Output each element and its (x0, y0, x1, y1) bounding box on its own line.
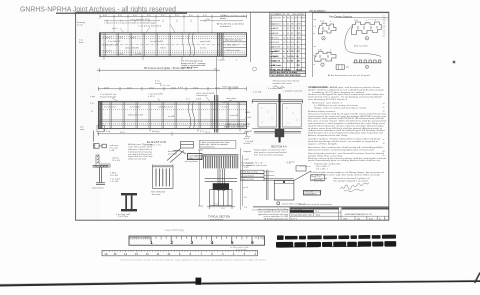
handwritten mark near table (273, 86, 285, 88)
ruler1 digits (150, 240, 254, 245)
svg-text:AB not to be used for construc: AB not to be used for construction (299, 203, 333, 206)
small box bottom-left of elevation (97, 126, 105, 132)
horn / bearing wedge assembly (167, 142, 194, 163)
svg-text:4: 4 (211, 240, 214, 245)
svg-text:A.B. "turn line": A.B. "turn line" (354, 45, 368, 48)
svg-text:45: 45 (383, 143, 385, 145)
plan under-beam ticks (104, 56, 223, 59)
hole plate A (318, 23, 336, 34)
svg-text:30.6: 30.6 (291, 56, 295, 58)
left margin annotation 2 (79, 40, 85, 44)
svg-text:41: 41 (379, 218, 381, 220)
svg-text:2: 2 (283, 56, 284, 58)
plan interior annotations (103, 36, 212, 56)
plan bottom flange edge (100, 54, 247, 56)
svg-text:crimped typ: crimped typ (196, 94, 208, 97)
svg-text:32: 32 (287, 28, 289, 30)
section A-A top annotations (253, 88, 303, 93)
svg-text:4: 4 (283, 47, 284, 49)
svg-text:340: 340 (297, 59, 300, 62)
svg-text:no: no (383, 103, 385, 105)
svg-text:15.3: 15.3 (291, 51, 295, 53)
weight table data rows (270, 24, 301, 49)
svg-text:4: 4 (366, 20, 367, 22)
svg-text:+ 1 crown: + 1 crown (285, 160, 295, 163)
svg-text:310: 310 (297, 65, 300, 67)
typical section: right dim lines (241, 148, 243, 210)
elevation wavy break (188, 101, 195, 128)
svg-text:51'-6 c to c: 51'-6 c to c (160, 84, 172, 87)
svg-text:x 3 x 3/8: x 3 x 3/8 (110, 181, 119, 183)
svg-text:10'-6: 10'-6 (149, 87, 155, 89)
svg-text:85: 85 (291, 60, 293, 62)
svg-text:52'-6 out to out of girder - 5: 52'-6 out to out of girder - 50 ton cap … (144, 67, 193, 70)
plan top flange edge (100, 33, 247, 35)
general notes paragraph 5 (308, 146, 383, 151)
section divider line (250, 12, 252, 62)
svg-text:17.9: 17.9 (291, 28, 295, 30)
section A-A center web dark bar (279, 94, 281, 143)
title block bottom numbers (291, 217, 386, 220)
section A-A top flange (252, 100, 302, 104)
elevation dim labels (104, 84, 239, 90)
small plate with ticks (336, 65, 344, 70)
svg-text:New Design Spacing: New Design Spacing (329, 16, 353, 19)
svg-text:3.9: 3.9 (287, 42, 290, 44)
typical section: dark block (213, 183, 229, 190)
typical section: base ticks (207, 206, 235, 209)
svg-text:1/2 = 3/8 - 1: 1/2 = 3/8 - 1 (316, 168, 329, 170)
ruler1 major ticks (151, 236, 252, 241)
svg-text:88: 88 (383, 151, 385, 153)
general notes paragraph 3 (308, 110, 387, 137)
svg-text:deck: deck (316, 214, 320, 216)
bottom edge dark line left (0, 282, 196, 285)
svg-text:shop coat red lead: shop coat red lead (128, 158, 147, 161)
title block center texts (291, 211, 320, 217)
typical section: deck lines (203, 153, 239, 155)
svg-text:14x3/8: 14x3/8 (273, 28, 279, 30)
svg-text:4.0: 4.0 (287, 47, 290, 49)
bottom right corner curl (475, 273, 480, 283)
ruler1 fine ticks left section (130, 236, 150, 239)
svg-text:re: re (383, 139, 385, 141)
end detail circle marker (277, 202, 280, 205)
plan view beam outline (100, 33, 102, 57)
elevation left end post (99, 101, 102, 128)
typical section: tie hatch band (204, 156, 238, 168)
plan right splice verticals (218, 33, 224, 57)
svg-text:251: 251 (297, 51, 300, 53)
typical section: label (208, 215, 230, 218)
svg-text:20x1-1/4: 20x1-1/4 (273, 59, 281, 62)
svg-text:pin detail: pin detail (168, 152, 177, 155)
hole plate micro labels (318, 20, 376, 52)
svg-text:86: 86 (297, 56, 299, 58)
general notes paragraph 4 (308, 138, 381, 146)
typical section: lower box (210, 190, 233, 206)
svg-text:field notes: field notes (314, 180, 325, 183)
end detail right step (294, 166, 311, 181)
svg-text:pl 12x3/8: pl 12x3/8 (273, 47, 281, 49)
right sidebar marks (383, 16, 386, 158)
hole plate B letter (365, 37, 368, 40)
svg-text:12 x 3/4: 12 x 3/4 (112, 160, 121, 162)
section A-A left margin labels (245, 112, 254, 143)
elevation web annotations (128, 114, 238, 118)
svg-text:ESTIMATED WT LIST - ONE GIRDER: ESTIMATED WT LIST - ONE GIRDER (271, 13, 304, 16)
svg-text:HARD STEEL: HARD STEEL (189, 157, 204, 160)
svg-text:all ribbed bars true with the: all ribbed bars true with the ends of th… (310, 173, 381, 176)
svg-text:11258: 11258 (296, 69, 302, 71)
svg-text:2-3/4: 2-3/4 (318, 49, 322, 51)
small symbol between views (253, 67, 257, 71)
svg-text:pl 9x1/2: pl 9x1/2 (273, 51, 280, 53)
plan break wavy lines (188, 33, 195, 57)
dim extension lines to beam (114, 18, 212, 33)
notes two-column fragment (314, 177, 370, 182)
table footnote (273, 79, 301, 84)
svg-text:pin brg detail: pin brg detail (185, 160, 198, 163)
svg-text:near midspan: near midspan (210, 218, 224, 221)
svg-text:3-1/2: 3-1/2 (354, 20, 358, 22)
left margin channel sketch (94, 131, 107, 149)
svg-text:10'-6: 10'-6 (215, 87, 221, 89)
svg-text:5: 5 (231, 240, 234, 245)
elevation stiffeners (110, 102, 239, 129)
svg-text:10'-6: 10'-6 (171, 87, 177, 89)
I-beam caption (116, 213, 131, 218)
left margin angle sketch with hatch (96, 155, 110, 167)
svg-text:top Ls: top Ls (112, 27, 119, 30)
svg-text:spans of this length.: spans of this length. (308, 142, 339, 145)
hole panel margin notes (314, 18, 317, 66)
bottom edge dark line right (201, 281, 480, 283)
svg-text:1946: 1946 (343, 218, 347, 220)
svg-text:7-1/2: 7-1/2 (244, 167, 250, 169)
plan right note box rows (223, 38, 247, 52)
svg-text:Field splice point: Field splice point (222, 86, 239, 89)
svg-text:4.5: 4.5 (291, 42, 294, 44)
svg-text:file E-2241 supersedes no: file E-2241 supersedes none (264, 218, 288, 221)
svg-text:E-2241 SHT 1: E-2241 SHT 1 (305, 194, 317, 196)
svg-text:(ON 40 SPANS): (ON 40 SPANS) (309, 10, 326, 13)
end detail anchor bolt verticals (266, 170, 268, 200)
svg-text:1048: 1048 (297, 37, 301, 39)
section A-A bottom flange (252, 129, 302, 134)
watermark underline (56, 12, 187, 14)
svg-text:L 6x6x1/2: L 6x6x1/2 (273, 24, 281, 26)
svg-text:dapped: dapped (244, 151, 252, 153)
svg-text:7/8 heads: 7/8 heads (273, 65, 282, 67)
svg-text:4.2: 4.2 (287, 37, 290, 39)
svg-text:3-1/2: 3-1/2 (320, 21, 324, 23)
ruler1 half ticks (156, 236, 263, 240)
svg-text:L 4: L 4 (314, 26, 316, 28)
dark label box (188, 154, 203, 160)
svg-text:4077: 4077 (297, 24, 301, 26)
svg-text:through plate girder span: through plate girder span (291, 213, 312, 216)
splice centerline vertical (215, 56, 217, 95)
elevation leader lines (112, 97, 232, 103)
svg-text:thru web: thru web (152, 193, 161, 196)
ruler2 digits (105, 252, 257, 256)
elevation leader annotations (100, 92, 237, 101)
svg-text:245: 245 (297, 47, 300, 49)
svg-text:26'-3: 26'-3 (205, 132, 211, 134)
svg-text:4.1: 4.1 (287, 50, 290, 53)
svg-text:to denote it: to denote it (220, 25, 231, 28)
plan leader lines from annotations (120, 24, 175, 33)
speck (453, 61, 455, 63)
typical section: right margin labels (244, 132, 252, 209)
svg-text:10'-6: 10'-6 (193, 87, 199, 89)
I-beam section detail (dark) (121, 193, 137, 211)
svg-text:1: 1 (385, 218, 386, 220)
typical section: boxed note (199, 141, 236, 149)
svg-text:4 - 1 pin at: 4 - 1 pin at (300, 165, 311, 168)
general notes paragraph 2 (312, 102, 367, 110)
svg-text:1-3/4: 1-3/4 (244, 159, 250, 161)
svg-text:421: 421 (297, 42, 300, 44)
elevation interior top texts (104, 106, 228, 109)
svg-text:3182: 3182 (297, 33, 301, 35)
elevation dimension row (98, 87, 247, 91)
plan dimension labels (103, 15, 226, 25)
pedestal dim labels (214, 204, 225, 211)
typical section: horizontal member (205, 178, 237, 180)
svg-text:the fine print line of the sca: the fine print line of the scanned regis… (121, 259, 267, 262)
title block inner lines (290, 207, 389, 220)
elevation splice dark verticals (215, 95, 218, 133)
svg-text:paste immediately prior to set: paste immediately prior to setting. Anch… (308, 159, 380, 162)
left margin annotation 3 (90, 95, 96, 113)
svg-text:4: 4 (330, 21, 331, 23)
section A-A bottom-left texts (246, 162, 291, 166)
svg-text:x 3/8: x 3/8 (110, 150, 116, 152)
svg-text:L 5x3.5: L 5x3.5 (273, 37, 279, 39)
svg-text:SECTION A-A: SECTION A-A (271, 145, 287, 148)
svg-text:br 77.1: br 77.1 (291, 217, 297, 220)
svg-text:2: 2 (283, 60, 284, 62)
under elevation ticks and texts (104, 129, 240, 132)
title block frame (253, 206, 389, 208)
svg-text:then rivet thru deck and flang: then rivet thru deck and flange (254, 153, 284, 156)
handwriting scribble (341, 182, 369, 191)
end detail top annotations (241, 160, 311, 167)
hole plate C letter (321, 63, 324, 66)
end detail right label boxes (311, 175, 325, 181)
hole plate C (315, 52, 336, 62)
svg-text:52'-6: 52'-6 (315, 211, 319, 213)
general notes paragraph 1 (308, 86, 385, 101)
overall dimension line under plan (97, 68, 220, 72)
svg-text:top: top (314, 18, 317, 21)
title block dark cell (290, 210, 314, 212)
svg-text:7 spaces at 6'-0 = 42'-0 rivet: 7 spaces at 6'-0 = 42'-0 rivet pitch in … (104, 22, 157, 25)
svg-text:8-5: 8-5 (383, 36, 386, 38)
svg-text:(e): (e) (346, 67, 349, 69)
channel sketch labels (110, 145, 120, 152)
svg-text:this design required 1 as not: this design required 1 as noted (334, 180, 369, 183)
svg-text:10'-6: 10'-6 (127, 87, 133, 89)
general notes list fragment (314, 163, 341, 171)
top dimension row of plan view (100, 15, 247, 21)
ruler2 ticks (104, 250, 255, 252)
svg-text:details: details (220, 17, 227, 20)
title block dark band 1 (290, 207, 339, 209)
turn line curve (345, 26, 381, 57)
typical section: stem verticals (218, 169, 224, 192)
section A-A notes below (254, 149, 287, 157)
svg-text:61.2: 61.2 (291, 33, 295, 35)
hole plate B (352, 22, 382, 35)
square detail (section B) (153, 164, 174, 188)
svg-text:members this sheet: members this sheet (273, 82, 292, 85)
plan rivet row top (100, 35, 246, 37)
svg-text:E-22: E-22 (369, 218, 373, 220)
plan centerline (100, 44, 247, 46)
svg-text:12: 12 (383, 111, 385, 113)
end detail horizontal lines (264, 178, 294, 180)
svg-text:4: 4 (330, 49, 331, 51)
elevation bottom flange lines (99, 119, 247, 121)
svg-text:At the dimensions now set o/o: At the dimensions now set o/o of guard (328, 74, 371, 77)
small texts between views (155, 81, 184, 89)
svg-text:SECTION: SECTION (273, 17, 282, 19)
sheet border (76, 12, 389, 220)
right top annotation (217, 15, 246, 28)
end detail stacked boxes (241, 170, 264, 180)
left margin annotation 4 (80, 126, 85, 130)
bottom edge notch (196, 278, 202, 285)
svg-text:19.6: 19.6 (291, 24, 295, 26)
plan stiffener lines (104, 33, 184, 57)
title block left stacked text (258, 208, 289, 221)
svg-text:52: 52 (287, 33, 289, 35)
svg-text:2: 2 (170, 240, 173, 245)
svg-text:12x3/4: 12x3/4 (273, 55, 280, 58)
extra tick row plan (107, 20, 205, 22)
svg-text:10.4: 10.4 (291, 37, 295, 39)
svg-text:to maintain line: to maintain line (200, 146, 215, 149)
svg-text:3: 3 (375, 20, 376, 22)
svg-text:da: da (383, 155, 385, 157)
svg-text:24: 24 (283, 37, 285, 39)
svg-text:2.0: 2.0 (287, 60, 290, 62)
left margin annotation (77, 21, 86, 26)
stamp box (304, 190, 321, 195)
svg-text:flange, rivets in shear and be: flange, rivets in shear and bearing as n… (314, 106, 367, 109)
svg-text:48x3/8: 48x3/8 (273, 33, 279, 35)
svg-text:TL: TL (291, 17, 293, 19)
typical section: left dim line (198, 150, 203, 206)
scan tone washes (76, 13, 100, 220)
svg-text:pin 8: pin 8 (244, 187, 250, 189)
section A-A sole dark blob (275, 129, 284, 137)
scale ruler 1 (129, 236, 265, 245)
bumps row letter (365, 65, 368, 68)
svg-text:4: 4 (283, 24, 284, 26)
svg-text:shoe pl 20x1: shoe pl 20x1 (242, 179, 255, 181)
svg-text:before shipment from the shop.: before shipment from the shop. (308, 134, 349, 137)
hole detail panel borders (311, 13, 313, 77)
svg-text:3: 3 (191, 240, 194, 245)
elevation girder outline (99, 101, 247, 128)
bumps row (tie spacing elevation) (353, 60, 382, 63)
redaction smudge line 2 (276, 241, 396, 248)
svg-text:TWO GIRDERS PER SPAN REQD: TWO GIRDERS PER SPAN REQD (270, 74, 301, 77)
horn labels (168, 151, 178, 155)
svg-text:1: 1 (283, 33, 284, 35)
svg-text:3.5x3/8: 3.5x3/8 (273, 42, 279, 44)
weight table headers (270, 17, 306, 19)
under-plan dense note block (181, 60, 206, 70)
svg-text:fixed brg casting: fixed brg casting (242, 171, 259, 174)
svg-text:26'-3: 26'-3 (120, 132, 126, 134)
end detail pedestal rect (274, 181, 294, 201)
elevation top flange lines (99, 102, 247, 104)
under girder overall dim line (97, 132, 247, 136)
hole plate A letter (322, 37, 325, 40)
svg-text:24: 24 (283, 42, 285, 44)
svg-text:52: 52 (287, 24, 289, 26)
general notes paragraph 6 (308, 152, 387, 162)
svg-text:ELEVATION: ELEVATION (147, 140, 166, 144)
general notes paragraph 7 (310, 171, 385, 176)
plan rivet row bottom (100, 50, 246, 52)
section A-A web plates (258, 104, 301, 127)
svg-text:10'-9: 10'-9 (104, 87, 110, 89)
elevation top rivet row (99, 108, 246, 110)
angle sketch labels (112, 157, 121, 161)
T-section detail (93, 166, 109, 185)
weight table grid (270, 12, 306, 73)
svg-text:NORTHERN PACIFIC RY CO: NORTHERN PACIFIC RY CO (345, 213, 373, 216)
svg-text:flange full length: flange full length (100, 95, 117, 98)
mid-left note paragraph (128, 143, 153, 160)
svg-text:1146: 1146 (297, 28, 301, 30)
svg-text:scan ref 52-6 dpg: scan ref 52-6 dpg (165, 229, 184, 232)
redaction smudge line 1 (277, 234, 396, 240)
watermark text (20, 4, 187, 13)
bottom edge fuzz (0, 282, 195, 285)
scale ruler 2 (102, 250, 258, 256)
svg-text:15.3: 15.3 (291, 47, 295, 49)
svg-text:shoe detail: shoe detail (241, 164, 252, 167)
svg-text:10 x 3/8: 10 x 3/8 (110, 175, 119, 177)
title block dark band 2 (342, 207, 389, 209)
svg-text:2: 2 (283, 28, 284, 30)
svg-text:NOTE: ALL RIVETS 7/8 DIAM: NOTE: ALL RIVETS 7/8 DIAM (270, 71, 297, 74)
svg-text:1: 1 (150, 240, 153, 245)
svg-text:dimensions before commencing f: dimensions before commencing fabrication… (308, 148, 375, 151)
svg-text:ch: ch (383, 107, 385, 109)
svg-text:pin pl 16x1/2: pin pl 16x1/2 (242, 175, 255, 177)
svg-text:x 32'-0: x 32'-0 (148, 96, 155, 98)
svg-text:9 x 1/2 pls: 9 x 1/2 pls (118, 216, 129, 218)
section B-B caption (151, 192, 166, 196)
svg-text:c to c end pins 51'-6: c to c end pins 51'-6 (130, 18, 150, 21)
svg-text:see drawing E-2241 sheet 2.: see drawing E-2241 sheet 2. (308, 98, 349, 101)
svg-text:524: 524 (357, 218, 360, 220)
svg-text:1 cov pl 14 x 3/8 x 32'-0: 1 cov pl 14 x 3/8 x 32'-0 (138, 26, 162, 28)
svg-text:6: 6 (251, 240, 254, 245)
